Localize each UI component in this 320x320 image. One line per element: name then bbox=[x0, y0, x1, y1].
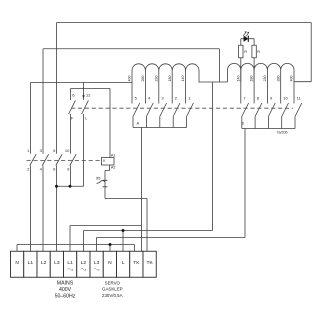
svg-text:230V/0,5A: 230V/0,5A bbox=[102, 293, 123, 298]
svg-text:140: 140 bbox=[236, 76, 240, 82]
svg-text:N: N bbox=[108, 260, 112, 266]
svg-text:400: 400 bbox=[128, 76, 132, 82]
svg-text:N: N bbox=[15, 260, 19, 266]
svg-text:GASKLEP: GASKLEP bbox=[102, 287, 123, 292]
svg-text:L2: L2 bbox=[41, 260, 47, 266]
svg-text:SERVO: SERVO bbox=[105, 280, 121, 285]
svg-text:A2: A2 bbox=[111, 166, 116, 170]
svg-text:7a/206: 7a/206 bbox=[277, 131, 288, 135]
svg-text:L2: L2 bbox=[81, 260, 87, 266]
svg-text:MAINS: MAINS bbox=[57, 281, 74, 287]
svg-text:TK: TK bbox=[147, 260, 154, 266]
svg-text:400: 400 bbox=[290, 76, 294, 82]
svg-text:L1: L1 bbox=[28, 260, 34, 266]
svg-text:L3: L3 bbox=[94, 260, 100, 266]
svg-text:A: A bbox=[137, 121, 140, 126]
svg-text:10: 10 bbox=[65, 148, 70, 153]
svg-text:230: 230 bbox=[263, 76, 267, 82]
svg-text:140: 140 bbox=[181, 76, 185, 82]
svg-text:280: 280 bbox=[141, 76, 145, 82]
svg-text:L3: L3 bbox=[54, 260, 60, 266]
svg-text:12: 12 bbox=[86, 93, 91, 98]
svg-text:TK: TK bbox=[133, 260, 140, 266]
svg-text:230: 230 bbox=[154, 76, 158, 82]
svg-text:10: 10 bbox=[283, 96, 288, 101]
svg-text:A1: A1 bbox=[111, 153, 116, 157]
svg-text:50–60Hz: 50–60Hz bbox=[55, 294, 76, 300]
svg-text:180: 180 bbox=[250, 75, 254, 81]
svg-text:L: L bbox=[122, 260, 125, 266]
svg-text:95: 95 bbox=[96, 175, 101, 180]
svg-text:280: 280 bbox=[276, 76, 280, 82]
svg-text:R: R bbox=[244, 50, 247, 54]
svg-text:180: 180 bbox=[168, 76, 172, 82]
svg-text:400V: 400V bbox=[59, 287, 72, 293]
svg-text:L1: L1 bbox=[67, 260, 73, 266]
svg-text:R: R bbox=[257, 50, 260, 54]
